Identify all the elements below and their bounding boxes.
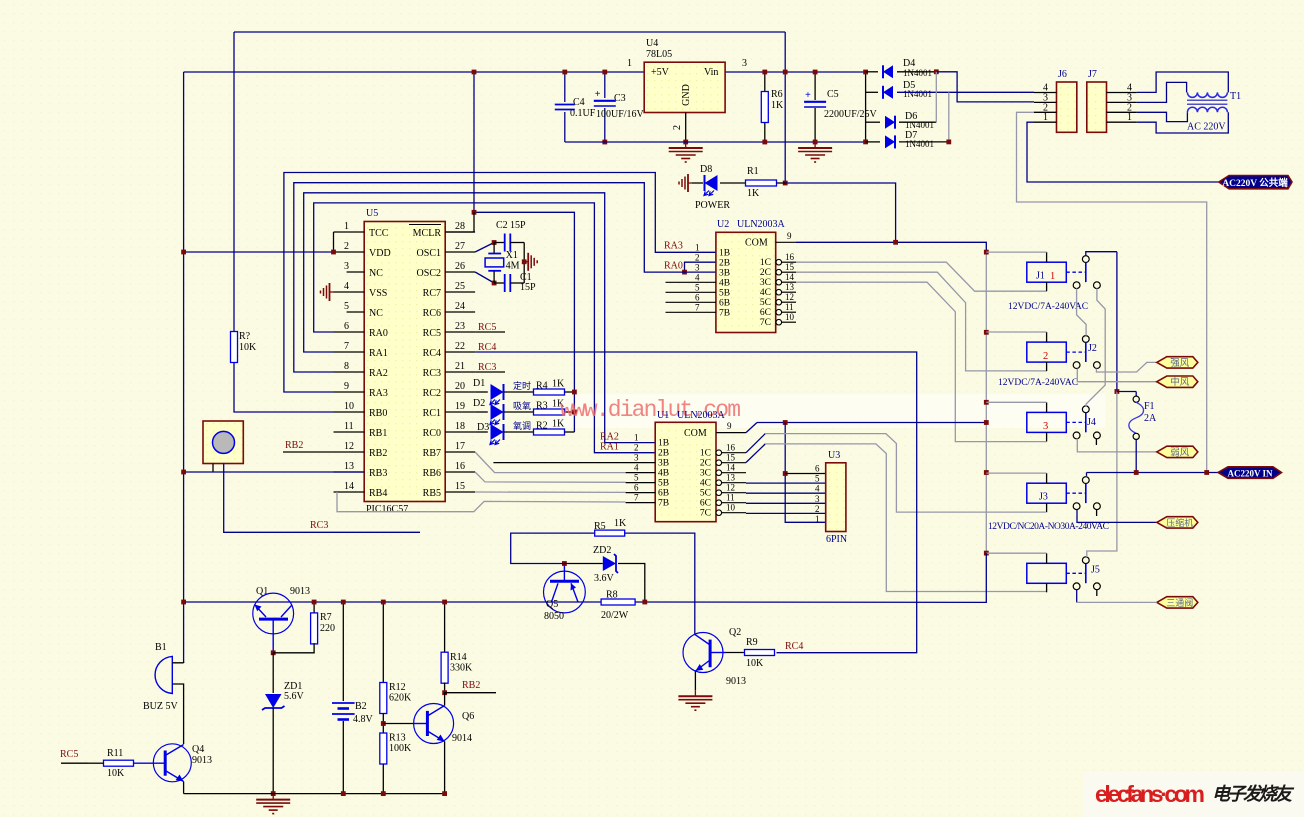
switch J4 common contact	[1082, 406, 1089, 432]
wire J4 coil bottom stub	[1046, 432, 1048, 441]
svg-text:RC5: RC5	[60, 749, 78, 760]
junction C5 bottom	[813, 140, 818, 145]
pin 25 U5 RC7	[423, 281, 475, 299]
svg-text:1: 1	[344, 221, 349, 232]
svg-text:14: 14	[726, 463, 736, 473]
svg-text:6: 6	[634, 483, 639, 493]
svg-text:POWER: POWER	[695, 200, 730, 211]
wire J3 common up	[1086, 473, 1088, 476]
wire R1 net to COM rail	[785, 183, 895, 243]
pin 2 J7	[1107, 102, 1137, 113]
junction +5V rail x785	[783, 70, 788, 75]
svg-text:GND: GND	[681, 84, 692, 106]
svg-text:RC2: RC2	[423, 388, 441, 399]
junction U1 COM drop	[783, 420, 788, 425]
ground below U4	[669, 142, 703, 162]
svg-text:VSS: VSS	[369, 288, 387, 299]
pin 17 U5 RB7	[423, 441, 475, 459]
wire base Q6	[383, 723, 414, 725]
pin 3 U1 3B	[493, 453, 669, 469]
pin 24 U5 RC6	[423, 301, 475, 319]
svg-text:19: 19	[455, 401, 465, 412]
wire MCLR net	[474, 212, 574, 432]
relay J4 coil	[1027, 412, 1067, 432]
svg-text:RA2: RA2	[369, 368, 388, 379]
pin 6 U3	[815, 464, 820, 474]
svg-text:13: 13	[344, 461, 354, 472]
pin 3 U3	[815, 494, 820, 504]
svg-text:D2: D2	[473, 398, 485, 409]
svg-text:5C: 5C	[760, 298, 771, 308]
wire D2 anode	[475, 411, 488, 413]
junction R13 bottom	[381, 791, 386, 796]
svg-text:RA0: RA0	[664, 261, 683, 272]
pin 1 J7	[1107, 112, 1137, 123]
switch J3 NO contact	[1094, 503, 1101, 510]
pin 16 U2 1C	[760, 252, 796, 268]
wire R12 top	[382, 602, 384, 683]
svg-text:1: 1	[695, 242, 700, 252]
junction crystal gnd	[522, 259, 527, 264]
wire 12V rail	[985, 252, 987, 553]
wire C2 right	[510, 242, 524, 244]
wire U3 pin6 wire	[785, 473, 826, 475]
pin 5 U2 5B	[666, 282, 731, 298]
junction OSC1 node	[492, 240, 497, 245]
relay J5 coil	[1027, 563, 1067, 583]
svg-text:7C: 7C	[700, 509, 711, 519]
wire R3 out	[564, 411, 574, 413]
svg-text:RA0: RA0	[369, 328, 388, 339]
junction D4 right	[934, 69, 939, 74]
resistor R2	[534, 419, 566, 436]
wire J6 pin2 mains	[1017, 112, 1207, 472]
svg-text:RC5: RC5	[423, 328, 441, 339]
switch J2 NC contact	[1073, 362, 1080, 369]
svg-text:6: 6	[695, 292, 700, 302]
svg-text:7: 7	[695, 302, 700, 312]
wire J1 NC to J2 common	[1077, 288, 1087, 335]
svg-text:78L05: 78L05	[646, 49, 672, 60]
svg-text:9014: 9014	[452, 733, 472, 744]
pin 26 U5 OSC2	[417, 261, 476, 279]
pin 2 U5 VDD	[334, 241, 391, 259]
junction Q5 emitter node	[562, 561, 567, 566]
svg-text:AC 220V: AC 220V	[1187, 122, 1226, 133]
svg-text:RB5: RB5	[423, 488, 441, 499]
transformer T1	[1187, 91, 1241, 112]
transistor Q4 9013	[134, 744, 213, 782]
pin 1 U2 1B	[695, 242, 730, 258]
svg-text:1: 1	[634, 433, 639, 443]
ground bottom rail	[256, 794, 290, 814]
svg-text:3C: 3C	[760, 278, 771, 288]
svg-text:RA3: RA3	[664, 241, 683, 252]
label J2 switch	[1088, 343, 1097, 354]
junction D7 left	[863, 140, 868, 145]
pin 14 U5 RB4	[334, 481, 388, 499]
wire D4 row left	[866, 71, 878, 73]
label D3	[477, 422, 489, 433]
svg-text:4: 4	[695, 272, 700, 282]
junction OSC2 node	[492, 281, 497, 286]
svg-text:24: 24	[455, 301, 465, 312]
svg-text:4: 4	[634, 463, 639, 473]
svg-text:1N4001: 1N4001	[905, 120, 934, 130]
junction 12V tap J2	[984, 330, 989, 335]
driver U1 ULN2003A	[655, 410, 725, 522]
wire rail right of Q5	[580, 601, 645, 603]
svg-text:4M: 4M	[506, 261, 520, 272]
wire U1 6C to U3 pin3	[746, 502, 826, 504]
diode D6 1N4001	[885, 116, 895, 129]
capacitor C4	[555, 97, 596, 119]
svg-text:26: 26	[455, 261, 465, 272]
svg-text:4.8V: 4.8V	[353, 714, 374, 725]
svg-text:4: 4	[815, 484, 820, 494]
wire RB3 net	[184, 471, 365, 473]
wire U1 2C diag	[746, 444, 765, 463]
wire U2 2C to J2 coil	[796, 272, 1047, 371]
svg-text:J6: J6	[1058, 69, 1067, 80]
pin 12 U5 RB2	[334, 441, 388, 459]
junction U3 pin6 tap	[783, 471, 788, 476]
wire R14 bottom	[444, 683, 446, 693]
zener ZD1 5.6V	[262, 681, 305, 710]
pin 1 U5 TCC	[334, 221, 389, 239]
svg-text:J2: J2	[1088, 343, 1097, 354]
wire R12 bottom	[382, 714, 384, 734]
svg-text:吸氧: 吸氧	[513, 400, 531, 411]
junction R14 top	[442, 600, 447, 605]
label J4 switch	[1087, 417, 1096, 428]
svg-text:6B: 6B	[719, 298, 730, 308]
resistor R13	[380, 733, 412, 765]
wire J1 common up	[1086, 252, 1117, 256]
wire switch rail lower	[1087, 392, 1117, 558]
svg-text:16: 16	[726, 443, 736, 453]
wire J5 NO stub	[1096, 590, 1098, 597]
junction D7 right	[946, 140, 951, 145]
svg-text:8050: 8050	[544, 611, 564, 622]
connector J6	[1057, 69, 1077, 132]
wire U1 COM diag	[746, 423, 757, 433]
svg-text:R11: R11	[107, 748, 123, 759]
svg-text:RB6: RB6	[423, 468, 441, 479]
svg-text:VDD: VDD	[369, 248, 391, 259]
junction C5 top	[813, 70, 818, 75]
junction 12V U1COM	[984, 420, 989, 425]
capacitor C5	[804, 89, 877, 120]
svg-text:6PIN: 6PIN	[826, 534, 847, 545]
junction left rail VDD	[181, 250, 186, 255]
switch J3 dashed link	[1066, 492, 1086, 494]
resistor R6	[761, 89, 784, 123]
svg-text:RB7: RB7	[423, 448, 441, 459]
wire Q5 through	[548, 601, 580, 603]
svg-text:1N4001: 1N4001	[903, 89, 932, 99]
buzzer B1 BUZ 5V	[143, 642, 179, 712]
wire B2 top	[342, 602, 344, 701]
svg-text:RC3: RC3	[310, 520, 328, 531]
pin 19 U5 RC1	[423, 401, 475, 419]
junction 12V tap J3	[984, 470, 989, 475]
wire J5 coil bottom stub	[1046, 583, 1048, 592]
wire +5V top left drop	[233, 32, 235, 331]
svg-text:ZD2: ZD2	[593, 545, 611, 556]
wire diode left vertical	[865, 72, 867, 142]
transistor Q1 9013	[253, 586, 310, 653]
wire C5 bottom	[814, 108, 816, 142]
junction +5V/MCLR	[472, 70, 477, 75]
wire ZD2 right	[618, 564, 645, 603]
svg-text:NC: NC	[369, 308, 383, 319]
wire J1 coil bottom stub	[1046, 282, 1048, 291]
push button S1	[203, 421, 243, 464]
svg-text:NC: NC	[369, 268, 383, 279]
junction R1 right	[783, 181, 788, 186]
svg-text:1: 1	[627, 58, 632, 69]
svg-text:Q4: Q4	[192, 744, 204, 755]
wire T1 pri inner loop	[1137, 112, 1188, 121]
label relay J3 rating	[988, 522, 1109, 532]
svg-text:R6: R6	[771, 89, 783, 100]
LED D1	[490, 384, 504, 405]
junction R6 bottom	[762, 140, 767, 145]
wire valve line gray	[1077, 601, 1157, 603]
wire T1 sec outer loop	[1137, 72, 1229, 92]
pin 11 U2 6C	[760, 302, 796, 318]
svg-text:17: 17	[455, 441, 465, 452]
junction R3 out	[572, 410, 577, 415]
svg-text:5: 5	[695, 282, 700, 292]
label 定时	[513, 380, 531, 391]
label C2 15P	[496, 220, 526, 231]
wire R11 out	[88, 762, 104, 764]
svg-text:J7: J7	[1088, 69, 1097, 80]
diode D7 1N4001	[885, 135, 895, 148]
switch J2 NO contact	[1094, 362, 1101, 369]
flag fan mid 中风	[1157, 376, 1198, 388]
svg-text:Q2: Q2	[729, 627, 741, 638]
junction button left	[181, 470, 186, 475]
svg-text:F1: F1	[1144, 401, 1155, 412]
svg-text:6C: 6C	[700, 499, 711, 509]
svg-text:11: 11	[726, 493, 735, 503]
wire U1 4C to U3 pin5	[746, 482, 826, 484]
svg-text:R1: R1	[747, 166, 759, 177]
svg-text:BUZ 5V: BUZ 5V	[143, 701, 179, 712]
svg-text:弱风: 弱风	[1170, 447, 1190, 458]
svg-text:R4: R4	[536, 381, 548, 392]
diode D4 1N4001	[883, 65, 893, 78]
ground crystal	[524, 253, 537, 271]
capacitor C2 15P	[505, 234, 511, 252]
junction 12V tap J1	[984, 250, 989, 255]
svg-text:+5V: +5V	[651, 67, 670, 78]
svg-text:R?: R?	[239, 331, 251, 342]
svg-text:R14: R14	[450, 652, 467, 663]
wire buzzer top stub	[172, 662, 183, 664]
svg-text:10K: 10K	[107, 768, 125, 779]
wire Q6 emitter	[444, 742, 446, 794]
svg-text:OSC1: OSC1	[417, 248, 441, 259]
wire J4 coil top stub	[1046, 402, 1048, 412]
wire ZD2 left	[564, 563, 602, 565]
flag fan low 弱风	[1157, 446, 1198, 458]
svg-text:22: 22	[455, 341, 465, 352]
pin 4 J7	[1107, 83, 1137, 94]
pin 15 U1 2C	[700, 453, 746, 469]
svg-text:1N4001: 1N4001	[905, 139, 934, 149]
net label RC4 pin22	[478, 342, 496, 353]
wire T1 sec inner loop	[1137, 82, 1187, 102]
LED D3	[490, 424, 504, 445]
wire J1 coil tap	[986, 251, 1046, 253]
svg-text:RC0: RC0	[423, 428, 441, 439]
wire D5 to J6 pin4	[897, 91, 1034, 93]
svg-text:RB4: RB4	[369, 488, 387, 499]
svg-text:C3: C3	[614, 93, 626, 104]
svg-text:D1: D1	[473, 378, 485, 389]
svg-text:2A: 2A	[1144, 413, 1157, 424]
pin 14 U1 3C	[700, 463, 746, 479]
wire R1 to junction	[777, 182, 786, 184]
svg-text:ULN2003A: ULN2003A	[677, 410, 726, 421]
wire J2 coil top stub	[1046, 332, 1048, 342]
junction R4 out	[572, 390, 577, 395]
svg-text:5B: 5B	[719, 288, 730, 298]
svg-text:3: 3	[695, 262, 700, 272]
svg-text:1C: 1C	[700, 449, 711, 459]
junction F1 bottom	[1134, 470, 1139, 475]
pin 13 U1 4C	[700, 473, 746, 489]
pin 3 U5 NC	[344, 261, 383, 279]
svg-text:12: 12	[344, 441, 354, 452]
wire J4 coil tap	[986, 401, 1046, 403]
pin 2 U3	[815, 504, 820, 514]
wire RC4 net	[475, 352, 917, 653]
wire R6 bottom	[764, 122, 766, 142]
wire MCLR feed drop	[473, 72, 475, 212]
svg-text:C2: C2	[496, 220, 508, 231]
svg-text:9: 9	[344, 381, 349, 392]
connector J7	[1087, 69, 1107, 132]
svg-text:20: 20	[455, 381, 465, 392]
wire R7 bottom	[273, 643, 314, 653]
pin 18 U5 RC0	[423, 421, 475, 439]
net label RC5	[475, 322, 505, 333]
pin 4 U5 VSS	[334, 281, 388, 299]
svg-text:1C: 1C	[760, 258, 771, 268]
svg-text:RC3: RC3	[423, 368, 441, 379]
label D4	[903, 58, 932, 78]
wire R6 top	[764, 72, 766, 92]
svg-text:12: 12	[785, 292, 794, 302]
svg-text:16: 16	[785, 252, 795, 262]
diode D5 1N4001	[883, 86, 893, 99]
wire U2 1C to J1 coil	[796, 262, 1047, 291]
svg-text:TCC: TCC	[369, 228, 389, 239]
ground D8	[679, 174, 692, 192]
wire R14 top	[444, 602, 446, 653]
label D8	[700, 164, 712, 175]
resistor R12	[380, 682, 412, 714]
wire RA2 net	[294, 183, 716, 372]
svg-text:U5: U5	[366, 208, 378, 219]
svg-text:R7: R7	[320, 612, 332, 623]
resistor R? 10K	[231, 331, 258, 363]
switch J2 common contact	[1082, 336, 1089, 362]
svg-text:J3: J3	[1039, 492, 1048, 503]
svg-text:电子发烧友: 电子发烧友	[1212, 784, 1295, 804]
flag AC220V common	[1219, 176, 1292, 190]
wire crystal right vertical	[523, 243, 525, 284]
svg-text:elecfans·com: elecfans·com	[1095, 781, 1205, 807]
wire MCLR pin drop	[445, 212, 474, 232]
junction RB2 node	[442, 690, 447, 695]
wire J3 coil tap	[986, 472, 1046, 474]
ground VSS pin4	[321, 283, 334, 301]
wire VDD net	[184, 251, 334, 253]
svg-text:1: 1	[815, 514, 820, 524]
svg-text:2C: 2C	[700, 459, 711, 469]
svg-text:9013: 9013	[192, 755, 212, 766]
svg-text:2: 2	[1043, 351, 1048, 362]
pin 11 U1 6C	[700, 493, 746, 509]
svg-text:J1: J1	[1036, 271, 1045, 282]
svg-text:+: +	[805, 90, 811, 101]
svg-text:Q5: Q5	[546, 599, 558, 610]
svg-text:中风: 中风	[1170, 376, 1190, 388]
wire R4 out	[564, 391, 574, 393]
pin 1 U4	[627, 58, 632, 69]
svg-text:2: 2	[634, 443, 639, 453]
svg-text:RC4: RC4	[423, 348, 441, 359]
wire COM to U3 pin1	[785, 423, 826, 523]
svg-text:620K: 620K	[389, 693, 412, 704]
pin 6 U5 RA0	[334, 321, 388, 339]
svg-text:2C: 2C	[760, 268, 771, 278]
wire D5/D7 vertical	[948, 92, 950, 142]
pin 11 U5 RB1	[334, 421, 388, 439]
junction R12 top	[381, 600, 386, 605]
svg-text:Q1: Q1	[256, 586, 268, 597]
svg-text:6B: 6B	[658, 489, 669, 499]
pin 7 U1 7B	[626, 493, 669, 509]
resistor R4	[534, 379, 566, 396]
wire D4 to J6 pin3	[936, 72, 1034, 102]
switch J4 NC contact	[1073, 432, 1080, 439]
svg-text:10K: 10K	[746, 658, 764, 669]
pin 10 U2 7C	[760, 312, 796, 328]
wire D3 anode	[475, 431, 488, 433]
svg-text:27: 27	[455, 241, 465, 252]
pin 2 U2 2B	[695, 252, 730, 268]
svg-text:RB2: RB2	[369, 448, 387, 459]
wire J4 NC to fan low	[1077, 439, 1157, 452]
junction Q6 emitter	[442, 791, 447, 796]
svg-text:14: 14	[344, 481, 354, 492]
svg-text:RC4: RC4	[785, 641, 803, 652]
svg-text:J4: J4	[1087, 417, 1096, 428]
wire J3 coil bottom stub	[1046, 503, 1048, 512]
label D7	[905, 130, 934, 149]
junction R6 top	[762, 70, 767, 75]
svg-text:Q6: Q6	[462, 711, 474, 722]
wire U1 1C to J3 coil	[765, 434, 1046, 512]
pin 15 U2 2C	[760, 262, 796, 278]
